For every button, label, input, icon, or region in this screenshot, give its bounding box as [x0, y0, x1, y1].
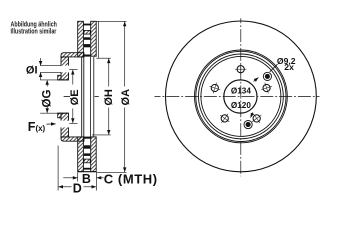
section centre tick: [95, 96, 99, 98]
hat skirt top (hatched cylinder wall): [61, 53, 84, 57]
bolt hole lower left: [217, 110, 233, 126]
svg-text:Ø120: Ø120: [231, 101, 251, 110]
vent vane block top: [84, 30, 90, 34]
arrow to upper locating hole: [254, 78, 259, 82]
vent vane band bottom: [84, 153, 90, 156]
bottom extension line plate: [77, 172, 79, 181]
dim E feature lines: [69, 69, 77, 71]
bottom extension line left: [57, 146, 59, 191]
bolt hole left: [208, 81, 222, 95]
dim E arrows: [72, 70, 74, 85]
leader from 9.2 label: [270, 64, 278, 72]
vent gap floor top: [83, 55, 90, 57]
bottom extension line right: [95, 172, 97, 190]
locating hole 9.2 upper: [263, 72, 271, 80]
svg-text:Illustration similar: Illustration similar: [11, 28, 57, 36]
friction plate inboard top: [91, 21, 97, 56]
svg-text:ØI: ØI: [26, 65, 38, 77]
bolt hole right: [259, 81, 273, 95]
leader F(x): [46, 123, 55, 125]
arrow to lower locating hole: [251, 112, 253, 117]
hat flange bottom: [61, 113, 69, 137]
svg-text:ØH: ØH: [103, 89, 115, 106]
crosshair vertical: [240, 18, 242, 176]
vent vane band bottom 2: [84, 145, 90, 148]
outer circle OD: [166, 21, 317, 172]
inner silhouette line 4: [93, 57, 95, 137]
dim D line with arrows: [58, 186, 71, 188]
dim B arrow right / C arrow: [97, 177, 104, 179]
dim G arrows: [46, 80, 48, 86]
vent gap solid base bottom: [83, 137, 90, 139]
svg-text:ØE: ØE: [69, 89, 81, 105]
friction plate inboard bottom: [91, 137, 97, 172]
vent vane band top 2: [84, 44, 90, 47]
friction inner edge circle: [195, 50, 288, 143]
pilot boss bottom: [58, 113, 61, 118]
vent gap rim line top: [83, 24, 90, 26]
dim B arrow left: [63, 177, 77, 179]
svg-text:ØG: ØG: [41, 90, 53, 108]
vent vane block bottom: [84, 159, 90, 163]
dim I hole edge extension lines: [40, 65, 61, 67]
svg-text:ØA: ØA: [120, 89, 132, 106]
bolt hole top: [235, 64, 246, 75]
centre tick left of E: [64, 96, 70, 98]
vent vane band top: [84, 37, 90, 40]
dim H arrows: [108, 59, 110, 87]
dim I arrows: [40, 58, 42, 66]
centre bore circle: [224, 80, 257, 113]
dim H extension lines: [96, 57, 111, 59]
inner silhouette line 2: [83, 57, 85, 137]
locating hole 9.2 lower: [244, 121, 252, 129]
inner silhouette line 3: [89, 57, 91, 137]
outer rim silhouette line: [97, 22, 99, 58]
hat step circle 2: [201, 56, 281, 136]
dim A extension lines: [96, 20, 126, 22]
bore surface bottom: [57, 112, 68, 114]
crosshair horizontal: [155, 96, 320, 98]
inner silhouette line 1: [81, 57, 83, 137]
svg-text:Ø134: Ø134: [231, 87, 251, 96]
bolt hole through flange bottom: [60, 121, 69, 128]
bore surface top: [57, 79, 68, 81]
svg-text:B: B: [82, 172, 91, 186]
friction plate outboard top: [78, 21, 84, 57]
dim A arrows: [124, 22, 126, 87]
friction plate outboard bottom: [78, 137, 84, 172]
svg-text:C (MTH): C (MTH): [104, 172, 158, 187]
bolt hole through flange top: [60, 66, 69, 73]
pilot boss top: [58, 75, 61, 80]
bolt hole lower right: [249, 110, 265, 126]
vent gap rim line bottom: [83, 168, 90, 170]
label D with mask: [72, 184, 83, 192]
hat skirt bottom: [61, 137, 84, 141]
disc OD bottom edge: [78, 171, 97, 173]
svg-text:D: D: [73, 182, 82, 196]
hat outer edge circle: [196, 51, 286, 141]
hat step circle: [199, 54, 284, 139]
svg-text:2x: 2x: [284, 62, 294, 72]
wheel bolt holes: [208, 64, 274, 127]
hat flange top (hatched): [61, 57, 69, 80]
dim G extension lines: [40, 79, 58, 81]
